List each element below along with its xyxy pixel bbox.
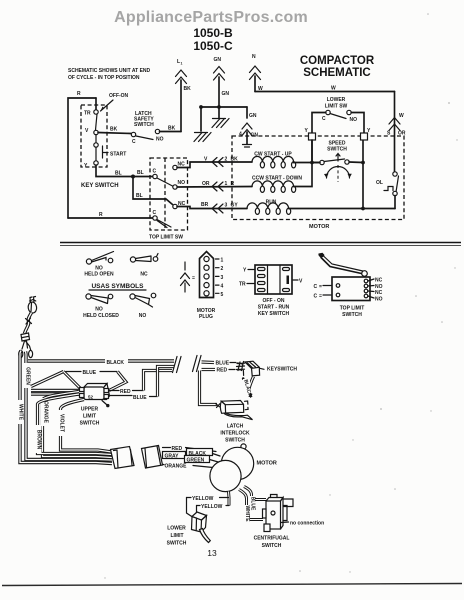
svg-text:SWITCH: SWITCH [262,543,282,549]
label YELLOW 1 [187,496,229,502]
symbol plug arrow [181,262,196,292]
wire GN tie bar [199,105,247,109]
svg-text:BL: BL [137,170,144,176]
svg-text:NO: NO [139,313,147,319]
svg-text:RED: RED [120,389,131,395]
svg-text:2: 2 [225,157,228,163]
wire right riser Y2 to bus [361,140,365,209]
label GREEN [23,363,31,388]
wire coil1 to speed switch [294,161,320,164]
svg-text:=: = [192,276,195,282]
overload OL [376,172,399,209]
wire blue to centrifugal [244,487,266,512]
svg-text:BL: BL [115,171,122,177]
top limit contact NC2 [173,201,186,209]
svg-text:INTERLOCK: INTERLOCK [220,431,250,437]
wire blue riser [158,367,175,397]
wire violet drop [57,400,112,453]
key switch contact TR [84,98,98,117]
speed switch S4 [310,141,363,165]
coil CCW START-DOWN [252,176,302,193]
svg-text:TOP LIMIT: TOP LIMIT [340,306,365,312]
svg-text:WHITE: WHITE [244,505,250,522]
connector Y1 [305,128,316,140]
top limit contact NO1 [173,180,185,189]
wire lower limit C to Y1 connector [312,113,326,134]
svg-text:MOTOR: MOTOR [309,224,329,230]
specks [104,13,457,579]
svg-text:4: 4 [221,284,224,290]
connector Y2 [361,128,372,140]
svg-text:WHITE: WHITE [18,404,24,421]
svg-text:C: C [314,284,318,290]
lower limit switch pictorial [167,512,211,547]
svg-text:ORANGE: ORANGE [43,401,49,424]
wire GN pin4 drop [239,107,258,147]
svg-text:KEYSWITCH: KEYSWITCH [267,367,297,373]
coil CW START-UP [252,152,296,168]
label USAS SYMBOLS [89,283,146,290]
svg-text:BK: BK [231,157,239,163]
svg-text:NO: NO [375,297,383,303]
wire W right drop [387,92,406,173]
top limit contact C1 [153,169,173,187]
svg-text:BL: BL [136,193,143,199]
wire red to motor [163,446,217,452]
svg-text:OR: OR [202,181,210,187]
key switch blade TR-V [96,114,98,130]
svg-text:BLACK: BLACK [107,360,125,366]
horizontal rule bottom [2,584,462,586]
svg-text:BK: BK [110,127,118,133]
wire BL branch down [133,177,173,205]
svg-text:W: W [399,113,404,119]
svg-text:N: N [252,54,256,60]
svg-text:5: 5 [221,292,224,298]
wire V to latch safety C (BK) [98,127,131,134]
svg-text:COMPACTOR: COMPACTOR [300,55,375,67]
svg-text:C: C [322,116,326,122]
svg-text:no connection: no connection [290,521,324,527]
wire white to centrifugal [239,490,263,523]
svg-text:NC: NC [375,290,383,296]
wire white [20,351,112,464]
svg-text:SCHEMATIC SHOWS UNIT AT END: SCHEMATIC SHOWS UNIT AT END [68,68,151,74]
svg-text:BK: BK [168,126,176,132]
wire red to keyswitch [202,368,243,374]
wire red from switch [109,389,144,395]
svg-text:CENTRIFUGAL: CENTRIFUGAL [254,536,290,542]
key switch START marker [96,146,126,161]
svg-text:SWITCH: SWITCH [327,147,347,153]
svg-text:W: W [331,86,336,92]
wire latch safety NO to L1 (BK) [160,126,182,132]
key switch contact V [85,128,98,135]
svg-text:SCHEMATIC: SCHEMATIC [303,67,371,79]
svg-text:W: W [258,86,263,92]
svg-text:SWITCH: SWITCH [134,122,154,128]
wire stub to ground left [200,107,202,131]
symbol NO [130,293,156,319]
svg-text:3: 3 [221,275,224,281]
connector housing A [111,447,135,469]
svg-text:GN: GN [222,91,230,97]
wire orange drop [41,392,112,458]
node L1 [176,59,192,92]
svg-text:R: R [77,91,81,97]
wire N down to W bus [254,76,256,92]
centrifugal switch pictorial [254,495,325,550]
svg-text:GRAY: GRAY [165,454,180,460]
wire row2 NO1 to coil (OR pin1 R) [177,181,252,191]
key switch contact Y [84,161,98,169]
svg-text:KEY SWITCH: KEY SWITCH [258,311,290,317]
svg-text:GREEN: GREEN [25,367,31,385]
svg-text:START: START [110,152,126,158]
svg-text:SWITCH: SWITCH [225,438,245,444]
top limit switch S3 dashed box [149,158,188,241]
coil RUN [247,200,291,215]
key switch detail KS1 [239,265,303,317]
svg-text:BK: BK [184,86,192,92]
svg-text:SWITCH: SWITCH [167,541,187,547]
svg-text:=: = [319,284,322,290]
svg-text:BR: BR [201,202,209,208]
wire Y1 to speed switch [311,140,313,163]
svg-text:2: 2 [221,266,224,272]
svg-text:VIOLET: VIOLET [59,414,65,432]
svg-text:C: C [153,210,157,216]
svg-text:USAS SYMBOLS: USAS SYMBOLS [91,283,144,290]
wire W bus [255,86,395,93]
svg-text:GN: GN [249,113,257,119]
svg-text:START - RUN: START - RUN [258,305,290,311]
svg-text:NO: NO [95,307,103,313]
wire yellow pair from motor [227,492,231,506]
wire brown drop [34,394,112,455]
top limit contact C2 [153,210,172,228]
horizontal rule mid [60,243,461,246]
svg-text:LATCH: LATCH [227,424,244,430]
svg-text:AppliancePartsPros.com: AppliancePartsPros.com [114,9,308,26]
wire stub to ground mid [218,107,220,118]
svg-text:RUN: RUN [266,200,277,206]
label GRAY wire [163,452,186,460]
svg-text:1: 1 [221,258,224,264]
svg-text:TR: TR [239,282,246,288]
top limit switch detail S3 [314,253,383,318]
svg-text:ORANGE: ORANGE [165,464,188,470]
svg-text:NC: NC [178,162,186,168]
svg-text:BLUE: BLUE [216,361,230,367]
svg-text:LIMIT: LIMIT [170,533,183,539]
node GN-line [214,57,230,97]
wire row1 NC1 to coil (V pin2 BK) [177,157,252,168]
label GREEN wire [185,456,221,464]
wire lower limit NO to Y2 connector [351,113,364,134]
svg-text:NC: NC [375,278,383,284]
label ORANGE wire [163,464,219,470]
svg-text:LIMIT SW: LIMIT SW [325,104,348,110]
svg-text:LOWER: LOWER [327,97,346,103]
motor plug P1 [197,252,224,321]
svg-text:RED: RED [217,368,228,374]
svg-text:UPPER: UPPER [81,407,99,413]
wire row3 NC2 to coil (BR pin3 GY) [177,202,247,213]
label YELLOW 2 [197,504,230,510]
symbol NC [130,254,158,278]
svg-text:OFF - ON: OFF - ON [263,298,285,304]
svg-text:BLUE: BLUE [133,395,147,401]
wire blue loop left [31,370,126,391]
svg-text:TR: TR [84,111,91,117]
wire yellow to lower limit [187,498,197,518]
wire black horizontal [28,360,174,366]
node N [250,54,261,80]
label BLACK wire [163,449,220,458]
latch safety switch S2 [131,111,163,145]
svg-text:NC: NC [140,272,148,278]
svg-text:C: C [132,139,136,145]
wire Y down to BL junction [96,165,153,179]
svg-text:R: R [99,212,103,218]
connector housing B [142,446,163,469]
svg-text:YELLOW: YELLOW [201,504,223,510]
power cord [25,313,32,334]
svg-text:YELLOW: YELLOW [192,496,214,502]
svg-text:LIMIT: LIMIT [83,414,96,420]
svg-text:NO: NO [178,180,186,186]
latch interlock switch pictorial [216,401,253,444]
svg-text:=: = [319,294,322,300]
motor M1 dashed box [232,136,404,230]
top limit contact NC1 [173,162,185,170]
upper limit switch pictorial [80,384,110,427]
svg-text:KEY SWITCH: KEY SWITCH [81,183,119,189]
svg-text:OF CYCLE - IN TOP POSITION: OF CYCLE - IN TOP POSITION [68,75,140,81]
svg-text:1050-C: 1050-C [193,39,233,53]
svg-text:C: C [153,169,157,175]
svg-text:HELD CLOSED: HELD CLOSED [83,313,119,319]
svg-text:3: 3 [225,203,228,209]
wire blue to keyswitch [202,361,243,367]
wire green [26,352,113,461]
svg-text:GY: GY [231,203,239,209]
wire to latch interlock left [200,371,218,405]
svg-text:TOP LIMIT SW: TOP LIMIT SW [149,235,183,241]
wire bottom bus [289,207,395,211]
wire bundle to upper limit switch [31,391,79,395]
svg-text:R: R [231,181,235,187]
node R (left rail) [68,91,96,218]
wire R bottom to top limit C [68,212,153,218]
wire red riser [144,371,173,391]
svg-text:1050-B: 1050-B [193,26,233,40]
keyswitch pictorial [237,361,298,380]
label WHITE [16,400,24,424]
svg-text:GREEN: GREEN [187,458,205,464]
symbol NO held closed [83,294,119,319]
svg-text:BROWN: BROWN [36,430,42,450]
svg-text:NO: NO [156,137,164,143]
wire black drop to latch interlock [242,377,253,399]
power cord plug [27,297,37,314]
svg-text:BLUE: BLUE [83,370,97,376]
key switch KS1 dashed box [81,105,107,167]
svg-text:52: 52 [88,395,94,400]
wire L1 down [180,80,182,132]
speed switch throw arc [324,165,352,182]
label OFF-ON with arrow [101,93,129,111]
key switch contact mid [94,135,98,148]
svg-text:PLUG: PLUG [199,314,213,320]
svg-text:GN: GN [214,57,222,63]
svg-text:SWITCH: SWITCH [342,312,362,318]
svg-text:OFF-ON: OFF-ON [109,93,129,99]
wire blue from switch [109,395,158,401]
motor pictorial [210,444,277,492]
cable break marks [173,356,202,373]
svg-text:NO: NO [350,117,358,123]
svg-text:MOTOR: MOTOR [257,461,277,467]
svg-text:OL: OL [376,180,383,186]
wire coil2 riser to speed switch node [294,140,312,187]
svg-text:SWITCH: SWITCH [80,421,100,427]
symbol NO held open [84,252,114,278]
ground [194,133,211,142]
svg-text:HELD OPEN: HELD OPEN [84,272,114,278]
lower limit switch S5 [322,97,357,123]
svg-text:1: 1 [225,181,228,187]
svg-text:LOWER: LOWER [167,526,186,532]
svg-text:13: 13 [207,548,217,558]
wire GN down [218,77,220,107]
cord strain relief [19,333,33,358]
ground [212,119,229,128]
svg-text:C: C [314,294,318,300]
svg-text:1: 1 [181,62,183,66]
